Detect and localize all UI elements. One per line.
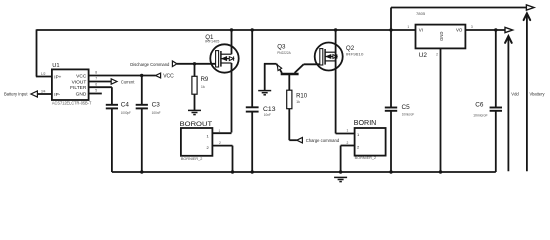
- svg-text:1: 1: [219, 129, 221, 133]
- svg-text:8: 8: [95, 71, 97, 75]
- svg-text:VO: VO: [456, 28, 463, 33]
- svg-text:PN2222A: PN2222A: [277, 51, 291, 55]
- svg-text:IRF9610: IRF9610: [346, 52, 364, 56]
- svg-text:C13: C13: [263, 106, 276, 113]
- svg-text:GND: GND: [439, 32, 444, 41]
- svg-text:7: 7: [95, 77, 97, 81]
- svg-text:VI: VI: [419, 28, 423, 33]
- svg-text:10nF: 10nF: [264, 113, 272, 117]
- svg-text:Discharge Command: Discharge Command: [130, 62, 169, 68]
- svg-text:U1: U1: [52, 63, 59, 69]
- svg-text:1: 1: [407, 25, 409, 29]
- svg-text:BORNIER_2: BORNIER_2: [181, 156, 203, 161]
- svg-text:1/2: 1/2: [41, 72, 46, 76]
- svg-text:VCC: VCC: [76, 73, 87, 79]
- svg-text:1000pF: 1000pF: [121, 111, 132, 115]
- svg-text:C4: C4: [121, 102, 130, 109]
- svg-text:Q2: Q2: [346, 45, 355, 52]
- svg-text:Vdd: Vdd: [511, 91, 519, 96]
- svg-text:100nF: 100nF: [152, 111, 162, 115]
- svg-text:U2: U2: [419, 52, 428, 59]
- svg-text:IP+: IP+: [54, 74, 61, 79]
- svg-text:ACS712ELCTR-05B-T: ACS712ELCTR-05B-T: [52, 101, 92, 106]
- svg-text:C3: C3: [152, 102, 161, 109]
- svg-text:GND: GND: [76, 91, 87, 97]
- svg-text:1k: 1k: [201, 85, 205, 89]
- svg-text:1: 1: [347, 129, 349, 133]
- svg-text:2: 2: [436, 52, 438, 56]
- svg-text:C5: C5: [402, 104, 411, 111]
- svg-text:FILTER: FILTER: [70, 85, 87, 91]
- svg-text:BORNIER_2: BORNIER_2: [355, 155, 377, 160]
- svg-text:R10: R10: [296, 93, 308, 99]
- svg-text:IP-: IP-: [54, 92, 60, 97]
- svg-text:VIOUT: VIOUT: [72, 79, 87, 85]
- svg-text:5: 5: [95, 89, 97, 93]
- svg-text:BORIN: BORIN: [354, 120, 377, 127]
- svg-text:Current: Current: [121, 80, 135, 85]
- svg-text:BOROUT: BOROUT: [180, 121, 213, 128]
- svg-text:Vbattery: Vbattery: [530, 91, 546, 96]
- svg-text:7805: 7805: [416, 11, 425, 16]
- svg-text:Battery Input: Battery Input: [4, 92, 28, 97]
- svg-text:2: 2: [347, 141, 349, 145]
- svg-text:2: 2: [219, 141, 221, 145]
- svg-text:10microF: 10microF: [473, 113, 488, 117]
- svg-text:10microF: 10microF: [402, 113, 415, 117]
- svg-text:Q3: Q3: [277, 43, 286, 50]
- svg-text:Charge command: Charge command: [306, 138, 340, 143]
- svg-text:IRF1405: IRF1405: [205, 40, 220, 44]
- svg-text:3/4: 3/4: [41, 89, 46, 93]
- svg-text:6: 6: [95, 82, 97, 86]
- svg-text:R9: R9: [201, 77, 209, 83]
- svg-text:C6: C6: [475, 101, 484, 108]
- svg-text:1k: 1k: [296, 100, 300, 104]
- svg-text:VCC: VCC: [163, 74, 174, 80]
- svg-text:3: 3: [471, 25, 473, 29]
